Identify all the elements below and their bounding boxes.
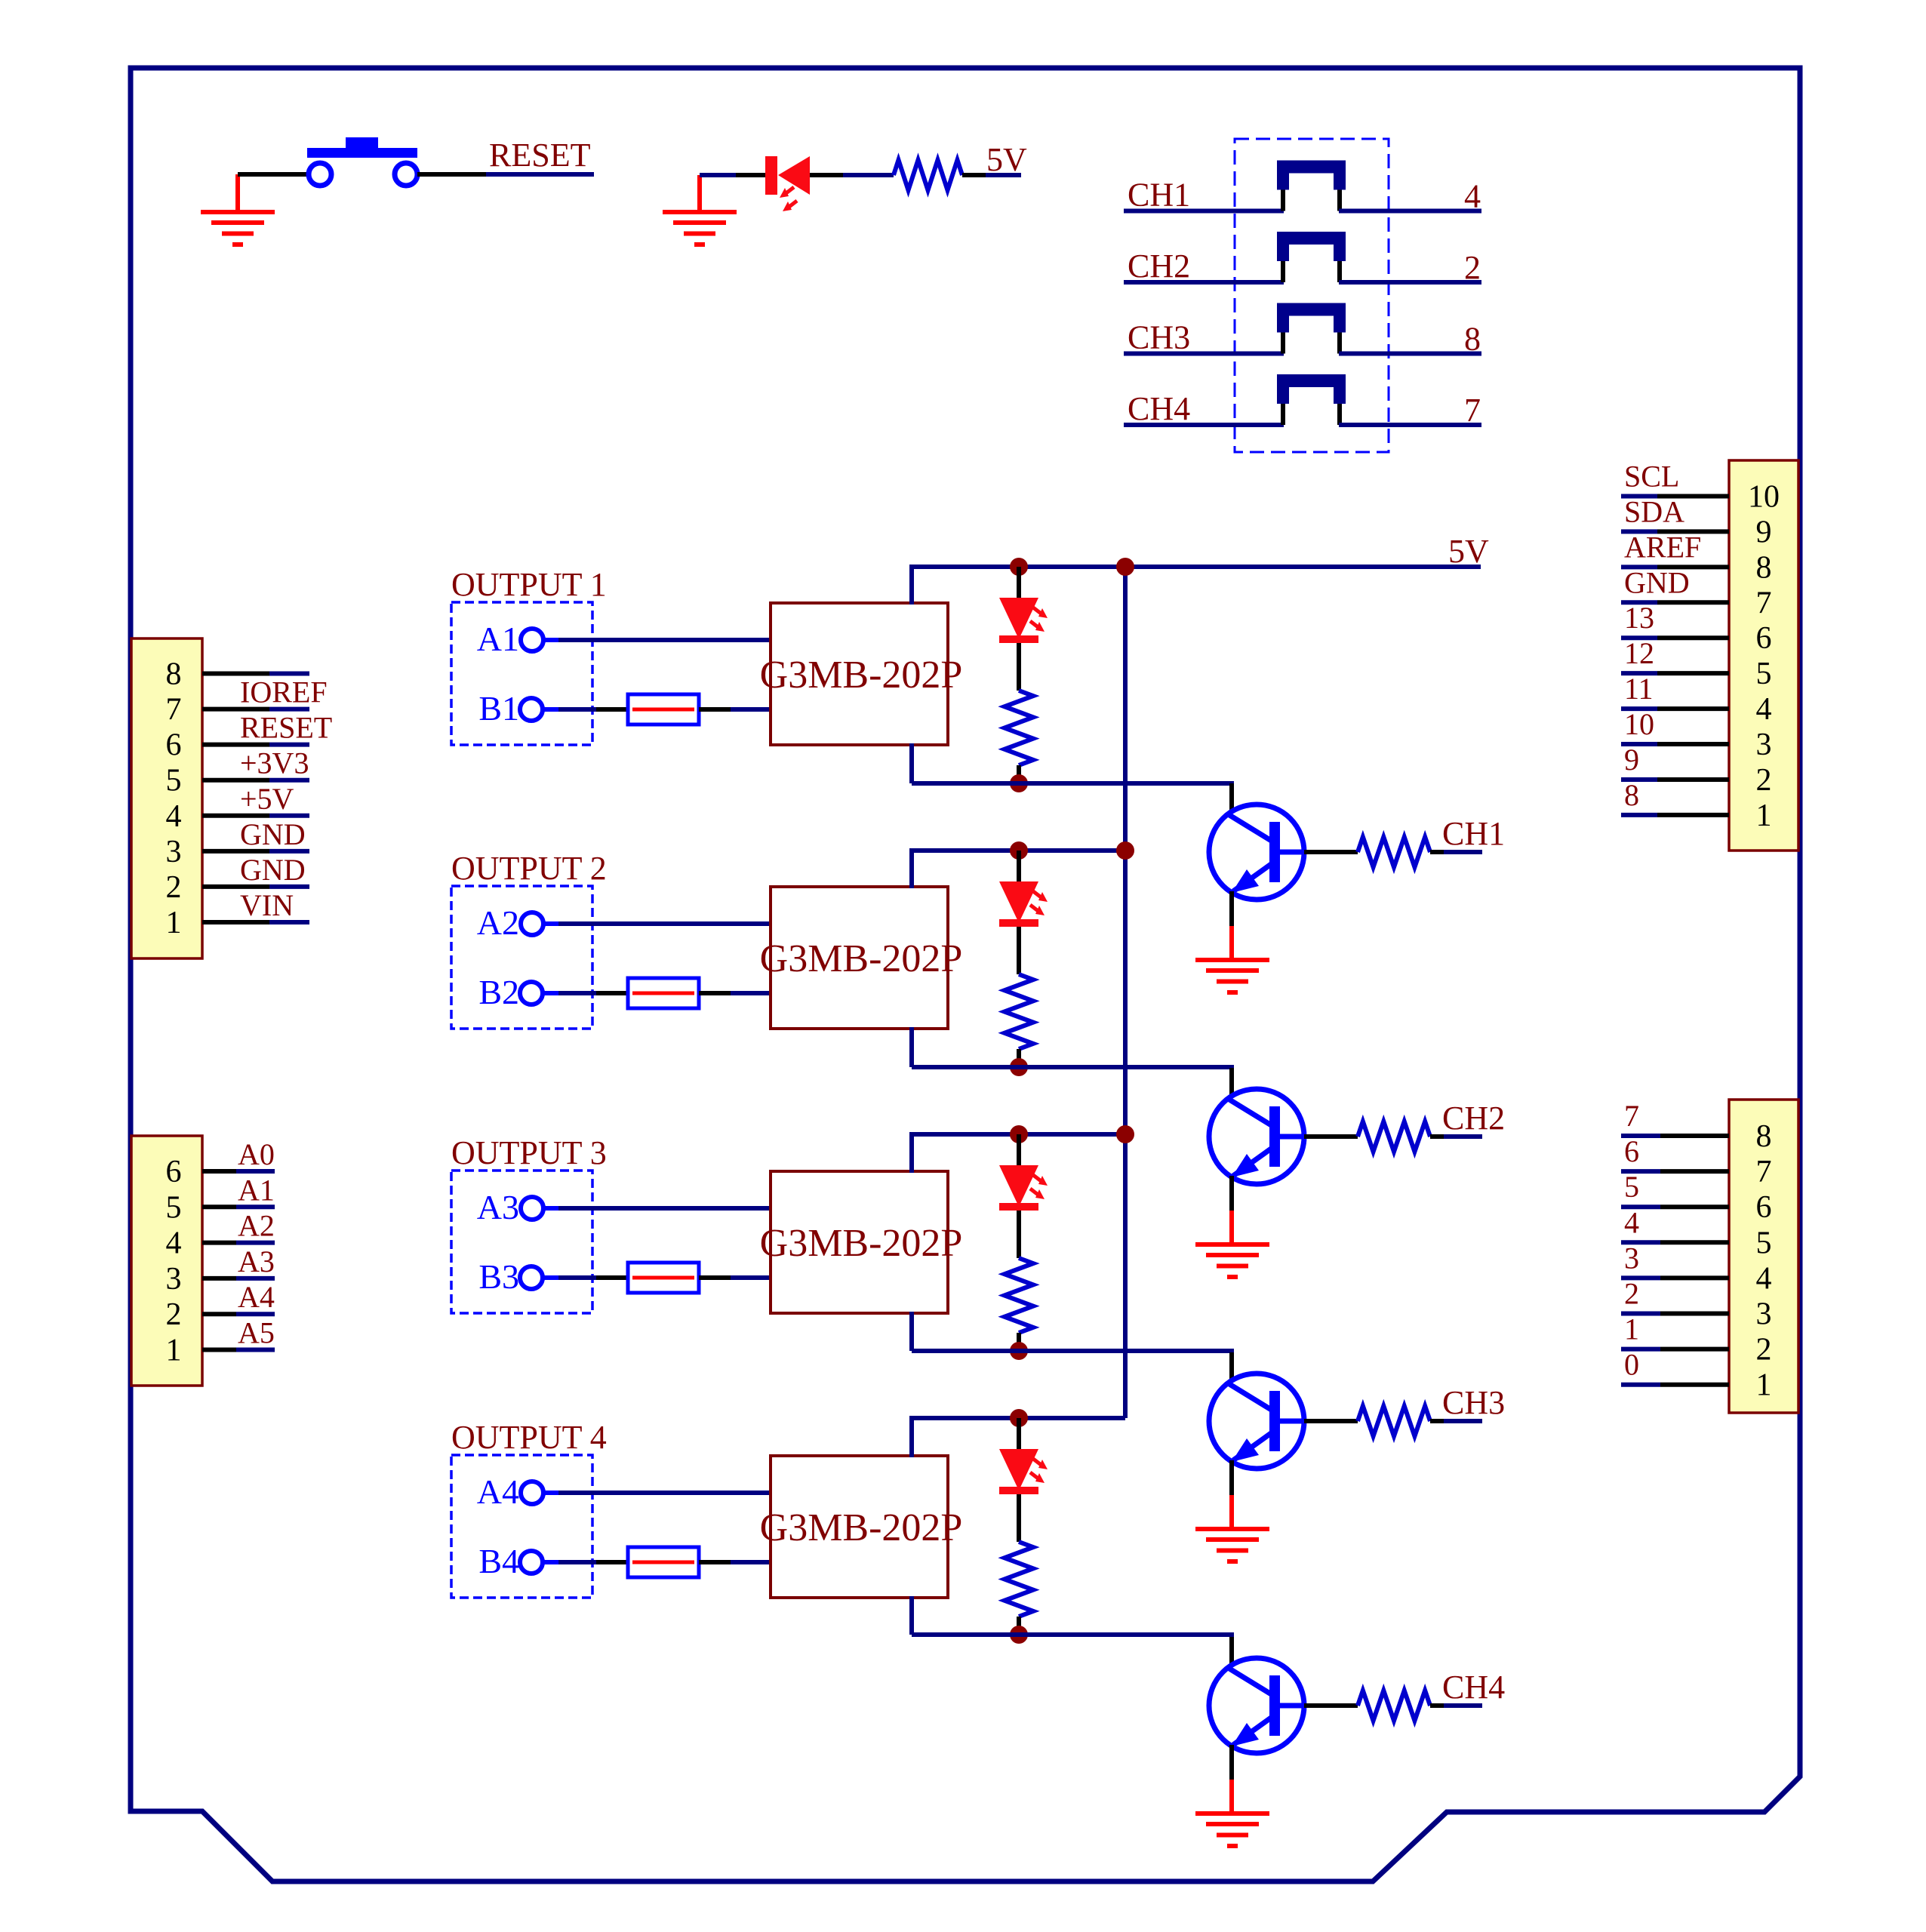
wire [235, 174, 240, 211]
wire 5V rail [909, 848, 1125, 853]
svg-text:4: 4 [1624, 1205, 1639, 1239]
svg-text:5V: 5V [1448, 533, 1489, 570]
wire [1621, 777, 1657, 782]
wire [1017, 1211, 1021, 1258]
wire [1621, 565, 1657, 569]
svg-text:3: 3 [1624, 1241, 1639, 1275]
wire [1430, 1419, 1444, 1423]
wire [1657, 494, 1729, 499]
wire [810, 173, 843, 177]
svg-text:A2: A2 [238, 1209, 275, 1243]
svg-text:GND: GND [240, 853, 306, 887]
wire [202, 672, 269, 676]
junction [1116, 1125, 1134, 1143]
svg-text:OUTPUT 2: OUTPUT 2 [451, 850, 607, 887]
pin [1281, 333, 1285, 354]
wire [1660, 1312, 1729, 1316]
wire [1124, 280, 1284, 285]
pin [1337, 404, 1342, 425]
svg-text:SCL: SCL [1624, 460, 1679, 494]
junction [1116, 558, 1134, 576]
wire [238, 172, 309, 177]
wire [1229, 1637, 1234, 1666]
wire [731, 1560, 771, 1564]
wire [1660, 1134, 1729, 1138]
LED D1 [999, 598, 1038, 643]
svg-text:13: 13 [1624, 601, 1654, 635]
wire [1229, 1495, 1234, 1527]
svg-text:1: 1 [1756, 798, 1772, 833]
wire [1621, 1275, 1660, 1280]
resistor R3b [1358, 1406, 1430, 1436]
wire [596, 707, 628, 712]
svg-text:OUTPUT 1: OUTPUT 1 [451, 566, 607, 603]
wire [269, 920, 309, 924]
wire [1304, 1134, 1358, 1139]
pin [1281, 404, 1285, 425]
wire [1621, 706, 1657, 711]
svg-text:A3: A3 [238, 1244, 275, 1278]
fuse F4 [628, 1547, 699, 1577]
wire [558, 991, 596, 995]
svg-text:7: 7 [1624, 1099, 1639, 1133]
jumper CH4 cap [1277, 374, 1346, 404]
wire [1430, 1703, 1444, 1708]
wire [202, 1241, 236, 1245]
svg-text:4: 4 [166, 799, 182, 834]
wire [1017, 567, 1021, 598]
transistor Q2 [1209, 1089, 1304, 1184]
wire [1017, 1049, 1021, 1067]
svg-text:VIN: VIN [240, 888, 294, 922]
wire [1229, 1176, 1234, 1211]
svg-text:7: 7 [166, 693, 182, 728]
svg-text:11: 11 [1624, 672, 1654, 706]
wire [736, 173, 767, 177]
wire [543, 707, 558, 712]
wire [1017, 765, 1021, 783]
wire [1621, 742, 1657, 746]
wire [269, 778, 309, 783]
wire [912, 1065, 1234, 1069]
svg-text:A5: A5 [238, 1316, 275, 1350]
wire [909, 743, 914, 783]
wire [269, 814, 309, 818]
wire [1229, 1745, 1234, 1780]
junction [1010, 774, 1028, 792]
wire [202, 1169, 236, 1174]
wire [1444, 850, 1482, 854]
LED emission arrows [1030, 891, 1048, 915]
svg-text:1: 1 [1756, 1368, 1772, 1403]
relay U2 G3MB-202P [771, 887, 948, 1029]
push button RESET [307, 137, 417, 186]
wire [596, 1275, 628, 1280]
wire [236, 1241, 275, 1245]
wire [486, 172, 594, 177]
resistor R1a [1005, 691, 1033, 765]
wire [202, 1276, 236, 1281]
svg-text:CH2: CH2 [1442, 1100, 1505, 1137]
wire [1660, 1204, 1729, 1209]
wire [1660, 1240, 1729, 1244]
svg-text:7: 7 [1464, 392, 1481, 429]
wire [1304, 1419, 1358, 1423]
svg-text:2: 2 [1756, 763, 1772, 798]
wire 5V rail [909, 565, 1481, 569]
wire [1124, 423, 1284, 427]
svg-text:+3V3: +3V3 [240, 746, 309, 780]
wire 5V rail [909, 1132, 1125, 1137]
resistor R2b [1358, 1121, 1430, 1152]
svg-text:G3MB-202P: G3MB-202P [760, 1506, 963, 1549]
wire [1229, 783, 1234, 813]
transistor Q1 [1209, 804, 1304, 900]
svg-text:GND: GND [240, 817, 306, 851]
wire [1124, 209, 1284, 214]
svg-text:G3MB-202P: G3MB-202P [760, 937, 963, 980]
wire [699, 991, 731, 995]
svg-text:1: 1 [166, 906, 182, 940]
wire [699, 1275, 731, 1280]
svg-text:B3: B3 [478, 1257, 519, 1296]
connector P2 (analog header) [131, 1136, 202, 1386]
wire [543, 1206, 558, 1211]
svg-text:B1: B1 [478, 689, 519, 728]
wire [1229, 1068, 1234, 1097]
svg-text:CH4: CH4 [1442, 1669, 1505, 1706]
ground [1195, 958, 1269, 995]
ground [1195, 1527, 1269, 1564]
wire [843, 173, 894, 177]
pin [1337, 261, 1342, 282]
LED D5 power indicator [765, 156, 810, 195]
junction [1010, 1125, 1028, 1143]
pin [1337, 333, 1342, 354]
LED D2 [999, 881, 1038, 927]
connector P3 (digital header) [1729, 460, 1798, 851]
wire [1339, 209, 1481, 214]
wire [1657, 635, 1729, 640]
wire [202, 743, 269, 747]
svg-text:IOREF: IOREF [240, 675, 328, 709]
LED D3 [999, 1165, 1038, 1211]
wire [1017, 1134, 1021, 1165]
wire [543, 1275, 558, 1280]
wire [909, 851, 914, 888]
wire [1229, 1780, 1234, 1812]
wire [1017, 1333, 1021, 1351]
wire [1621, 635, 1657, 640]
wire [417, 172, 486, 177]
wire [1229, 1460, 1234, 1495]
svg-text:GND: GND [1624, 565, 1690, 599]
junction [1010, 1626, 1028, 1644]
wire [1430, 1134, 1444, 1139]
wire [1657, 529, 1729, 534]
svg-text:2: 2 [1756, 1333, 1772, 1367]
svg-text:2: 2 [1464, 249, 1481, 286]
svg-text:4: 4 [1756, 1261, 1772, 1296]
wire [1444, 1134, 1482, 1139]
wire [700, 173, 736, 177]
svg-text:AREF: AREF [1624, 530, 1701, 564]
fuse F3 [628, 1263, 699, 1293]
wire [909, 1027, 914, 1067]
svg-text:8: 8 [1756, 1119, 1772, 1154]
junction [1010, 1409, 1028, 1427]
resistor R2a [1005, 974, 1033, 1049]
svg-text:6: 6 [1756, 621, 1772, 656]
svg-text:5: 5 [1624, 1170, 1639, 1204]
transistor Q3 [1209, 1374, 1304, 1469]
wire [269, 884, 309, 889]
wire [731, 707, 771, 712]
wire [202, 1312, 236, 1316]
junction [1010, 1058, 1028, 1076]
svg-text:G3MB-202P: G3MB-202P [760, 654, 963, 697]
svg-text:B2: B2 [478, 973, 519, 1011]
junction [1116, 841, 1134, 860]
svg-text:5: 5 [1756, 657, 1772, 691]
wire [269, 707, 309, 712]
svg-text:5: 5 [1756, 1226, 1772, 1260]
svg-text:6: 6 [1756, 1190, 1772, 1225]
svg-text:2: 2 [166, 870, 182, 905]
svg-text:RESET: RESET [240, 711, 332, 745]
svg-text:12: 12 [1624, 636, 1654, 670]
svg-text:10: 10 [1748, 480, 1780, 515]
wire [558, 638, 771, 642]
wire [1621, 600, 1657, 605]
svg-text:5: 5 [166, 1190, 182, 1225]
jumper CH1 cap [1277, 161, 1346, 190]
svg-text:G3MB-202P: G3MB-202P [760, 1222, 963, 1265]
svg-text:8: 8 [1464, 321, 1481, 358]
wire [1444, 1703, 1482, 1708]
svg-text:9: 9 [1756, 515, 1772, 549]
pin [1281, 261, 1285, 282]
svg-text:8: 8 [1756, 550, 1772, 585]
wire [1657, 706, 1729, 711]
wire [1017, 643, 1021, 691]
wire [1017, 1617, 1021, 1635]
wire [202, 778, 269, 783]
svg-text:8: 8 [166, 657, 182, 692]
junction [1010, 558, 1028, 576]
wire [202, 1348, 236, 1352]
wire [1657, 565, 1729, 569]
wire [697, 175, 702, 211]
wire [202, 814, 269, 818]
pin [1337, 190, 1342, 211]
wire [236, 1312, 275, 1316]
svg-text:A4: A4 [477, 1472, 519, 1511]
wire [1621, 1383, 1660, 1387]
svg-text:1: 1 [166, 1334, 182, 1368]
ground [201, 210, 275, 247]
wire [1124, 352, 1284, 356]
wire [1621, 1169, 1660, 1174]
junction [1010, 1342, 1028, 1360]
svg-text:5: 5 [166, 764, 182, 798]
wire [543, 1560, 558, 1564]
wire [912, 781, 1234, 786]
wire [202, 707, 269, 712]
svg-text:10: 10 [1624, 707, 1654, 741]
wire [1229, 1352, 1234, 1382]
wire [543, 1491, 558, 1495]
wire [1660, 1169, 1729, 1174]
svg-text:RESET: RESET [489, 137, 591, 174]
wire [543, 638, 558, 642]
wire [1017, 927, 1021, 974]
wire [202, 884, 269, 889]
resistor R4b [1358, 1690, 1430, 1721]
wire 5V vertical rail [1123, 567, 1128, 1418]
wire [699, 707, 731, 712]
wire [202, 849, 269, 854]
wire [986, 173, 1021, 177]
wire [1621, 671, 1657, 675]
svg-text:A2: A2 [477, 903, 519, 942]
wire [558, 921, 771, 926]
wire [909, 1418, 914, 1457]
svg-text:7: 7 [1756, 586, 1772, 620]
LED emission arrows [1030, 1175, 1048, 1199]
wire [596, 991, 628, 995]
wire [1339, 352, 1481, 356]
relay U3 G3MB-202P [771, 1171, 948, 1313]
svg-text:A1: A1 [477, 620, 519, 658]
wire [1660, 1347, 1729, 1352]
ground [1195, 1242, 1269, 1279]
jumper block JP1 [1235, 139, 1389, 452]
svg-text:0: 0 [1624, 1348, 1639, 1382]
wire [202, 920, 269, 924]
wire [558, 707, 596, 712]
svg-text:CH3: CH3 [1442, 1384, 1505, 1421]
wire [909, 567, 914, 605]
wire [1621, 813, 1657, 817]
wire [1657, 671, 1729, 675]
connector P1 (power header) [131, 638, 202, 958]
wire [236, 1348, 275, 1352]
wire [909, 1312, 914, 1351]
relay U1 G3MB-202P [771, 603, 948, 745]
wire [1229, 926, 1234, 958]
wire [909, 1596, 914, 1635]
svg-text:4: 4 [166, 1226, 182, 1261]
wire [202, 1204, 236, 1209]
jumper CH2 cap [1277, 232, 1346, 261]
wire [1229, 1211, 1234, 1243]
wire [558, 1491, 771, 1495]
wire [1017, 1494, 1021, 1542]
wire [269, 743, 309, 747]
wire [236, 1204, 275, 1209]
resistor R1b [1358, 837, 1430, 867]
svg-text:9: 9 [1624, 743, 1639, 777]
resistor R4a [1005, 1542, 1033, 1617]
svg-text:CH3: CH3 [1128, 319, 1190, 356]
svg-text:7: 7 [1756, 1155, 1772, 1189]
wire [912, 1632, 1234, 1637]
wire [962, 173, 986, 177]
resistor R3a [1005, 1258, 1033, 1333]
wire [1017, 1418, 1021, 1449]
jumper CH3 cap [1277, 303, 1346, 333]
fuse F1 [628, 694, 699, 724]
svg-text:A3: A3 [477, 1188, 519, 1226]
transistor Q4 [1209, 1658, 1304, 1753]
LED D4 [999, 1449, 1038, 1494]
wire [558, 1206, 771, 1211]
wire [1017, 851, 1021, 881]
svg-text:2: 2 [166, 1297, 182, 1332]
svg-text:SDA: SDA [1624, 494, 1684, 528]
svg-text:A4: A4 [238, 1280, 275, 1314]
wire [558, 1560, 596, 1564]
wire [1657, 742, 1729, 746]
svg-text:B4: B4 [478, 1542, 519, 1580]
svg-text:2: 2 [1624, 1277, 1639, 1311]
wire 5V rail [909, 1416, 1125, 1420]
svg-text:6: 6 [166, 728, 182, 763]
svg-text:3: 3 [166, 1262, 182, 1297]
wire [543, 991, 558, 995]
wire [1304, 1703, 1358, 1708]
svg-text:CH2: CH2 [1128, 248, 1190, 285]
wire [1621, 1134, 1660, 1138]
fuse F2 [628, 978, 699, 1008]
wire [1660, 1383, 1729, 1387]
svg-text:CH1: CH1 [1442, 815, 1505, 852]
svg-text:CH1: CH1 [1128, 177, 1190, 214]
wire [596, 1560, 628, 1564]
pin [1281, 190, 1285, 211]
svg-text:3: 3 [1756, 728, 1772, 762]
wire [1444, 1419, 1482, 1423]
ground [663, 210, 737, 247]
wire [1621, 1240, 1660, 1244]
wire [1430, 850, 1444, 854]
svg-text:A1: A1 [238, 1173, 275, 1207]
wire [1657, 600, 1729, 605]
svg-text:3: 3 [1756, 1297, 1772, 1332]
svg-text:1: 1 [1624, 1312, 1639, 1346]
LED emission arrows [1030, 1459, 1048, 1483]
wire [912, 1349, 1234, 1353]
svg-text:4: 4 [1756, 692, 1772, 727]
wire [1621, 1347, 1660, 1352]
wire [1621, 1204, 1660, 1209]
svg-text:3: 3 [166, 835, 182, 869]
wire [1621, 1312, 1660, 1316]
wire [909, 1134, 914, 1173]
svg-text:5V: 5V [986, 141, 1027, 178]
wire [236, 1169, 275, 1174]
wire [1339, 280, 1481, 285]
wire [1657, 813, 1729, 817]
wire [731, 991, 771, 995]
resistor R5 [894, 160, 962, 190]
wire [1304, 850, 1358, 854]
wire [1621, 494, 1657, 499]
wire [1621, 529, 1657, 534]
svg-text:8: 8 [1624, 778, 1639, 812]
wire [1657, 777, 1729, 782]
